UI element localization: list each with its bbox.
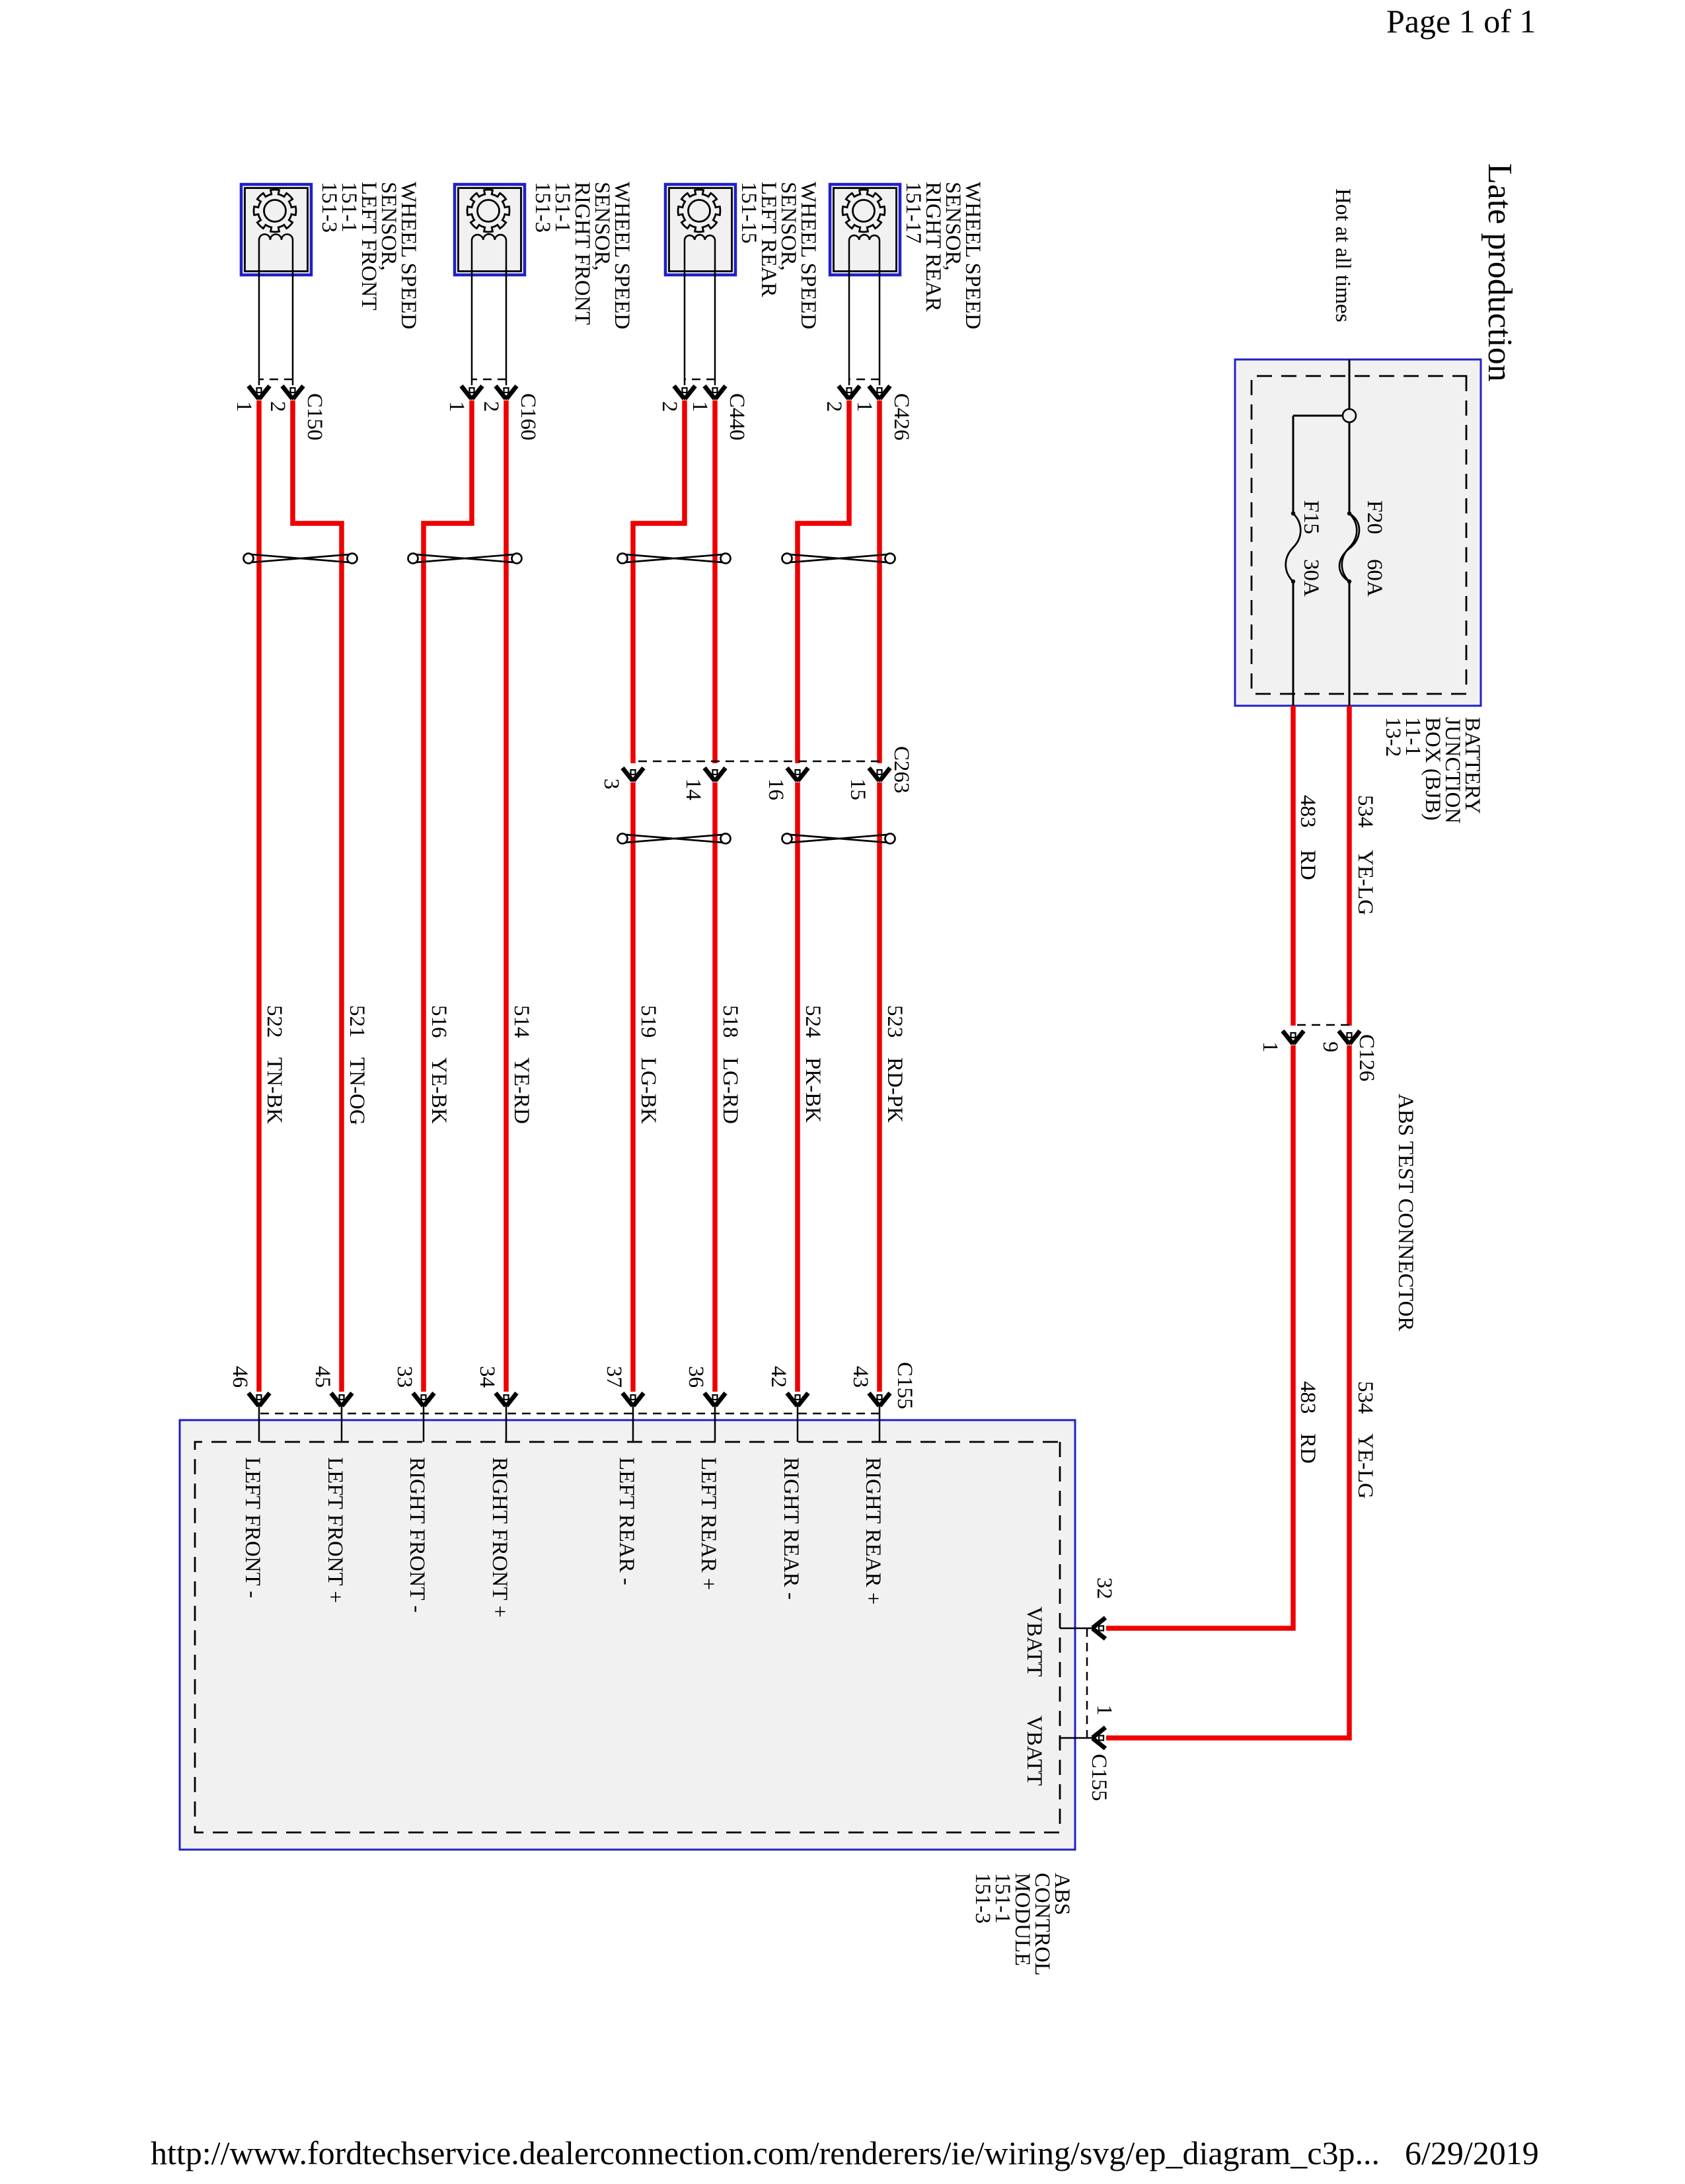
svg-text:483: 483 [1296, 795, 1320, 828]
svg-text:RD: RD [1296, 850, 1320, 880]
gear icon C440 [678, 190, 720, 232]
C263 pin 14 arrow [704, 768, 726, 782]
gear icon C150 [254, 190, 296, 232]
svg-text:30A: 30A [1299, 559, 1323, 597]
svg-text:C126: C126 [1355, 1034, 1378, 1082]
svg-text:483: 483 [1296, 1381, 1320, 1414]
svg-text:15: 15 [846, 778, 870, 800]
red wire 524 PK-BK (C426 pin 2) seg1 [798, 400, 849, 763]
wire F20 to BJB edge [1349, 582, 1351, 706]
svg-text:TN-OG: TN-OG [345, 1057, 369, 1125]
wire 534 YE-LG segment from BJB [1347, 706, 1352, 1026]
C263 dashed link [633, 761, 880, 763]
svg-text:RIGHT FRONT -: RIGHT FRONT - [405, 1457, 429, 1612]
svg-text:YE-LG: YE-LG [1353, 850, 1377, 915]
pin 1 lead [1060, 1737, 1094, 1739]
svg-text:RD-PK: RD-PK [883, 1057, 907, 1123]
svg-text:3: 3 [599, 778, 623, 790]
C263 pin 3 arrow [622, 768, 644, 782]
svg-text:C160: C160 [516, 393, 540, 441]
pin 42 lead [797, 1405, 799, 1442]
C160 connector arrow top [496, 386, 517, 400]
twisted pair symbol [618, 554, 731, 564]
C426 connector arrow top [869, 386, 890, 400]
svg-text:LEFT FRONT +: LEFT FRONT + [323, 1457, 347, 1603]
svg-text:TN-BK: TN-BK [262, 1057, 286, 1124]
svg-text:YE-LG: YE-LG [1353, 1433, 1377, 1499]
gear icon C160 [467, 190, 509, 232]
pin 32 lead [1060, 1628, 1094, 1630]
C440 pin lead bottom [684, 240, 686, 385]
C426 dashed link [849, 379, 880, 381]
pin 37 lead [632, 1405, 634, 1442]
C160 pin lead bottom [471, 240, 473, 385]
svg-text:518: 518 [718, 1005, 742, 1038]
C150 connector arrow bottom [248, 386, 270, 400]
svg-text:LEFT REAR +: LEFT REAR + [696, 1457, 720, 1590]
twisted pair symbol [618, 834, 731, 844]
red wire 519 LG-BK seg2 [630, 782, 636, 1392]
C126 dashed link [1293, 1024, 1349, 1026]
svg-text:RIGHT REAR +: RIGHT REAR + [861, 1457, 885, 1604]
red wire 523 RD-PK (C426 pin 1) seg1 [877, 400, 882, 763]
svg-text:9: 9 [1318, 1041, 1342, 1053]
svg-text:514: 514 [509, 1005, 533, 1038]
red wire from C150 pin 2 [293, 400, 342, 1392]
C155 pin 43 arrow [869, 1393, 890, 1408]
svg-text:YE-RD: YE-RD [509, 1057, 533, 1124]
svg-text:521: 521 [345, 1005, 369, 1038]
junction circle [1343, 409, 1356, 422]
twisted pair symbol [782, 834, 895, 844]
svg-text:LEFT REAR -: LEFT REAR - [615, 1457, 638, 1585]
svg-text:2: 2 [657, 401, 681, 412]
coil C160 [472, 234, 506, 240]
svg-text:ABSCONTROLMODULE151-1151-3: ABSCONTROLMODULE151-1151-3 [971, 1873, 1074, 1976]
pin 45 lead [341, 1405, 343, 1442]
C160 dashed link [472, 379, 506, 381]
C440 connector arrow top [704, 386, 726, 400]
red wire from C150 pin 1 [256, 400, 262, 1392]
svg-text:2: 2 [479, 401, 503, 412]
svg-text:C155: C155 [1087, 1754, 1111, 1801]
module inner dashed border [195, 1442, 1060, 1832]
svg-text:VBATT: VBATT [1022, 1606, 1046, 1676]
C426 pin lead top [879, 240, 881, 385]
wire BJB feed [1349, 359, 1351, 409]
twisted pair symbol [244, 554, 357, 564]
svg-text:WHEEL SPEEDSENSOR,RIGHT REAR15: WHEEL SPEEDSENSOR,RIGHT REAR151-17 [901, 182, 985, 329]
C155 pin 36 arrow [704, 1393, 726, 1408]
svg-text:32: 32 [1092, 1577, 1116, 1599]
red wire 524 PK-BK seg2 [795, 782, 800, 1392]
svg-text:RIGHT FRONT +: RIGHT FRONT + [488, 1457, 511, 1618]
wire 534 YE-LG to VBATT pin 1 [1106, 1045, 1349, 1738]
svg-text:C150: C150 [303, 393, 326, 441]
svg-text:16: 16 [764, 778, 788, 800]
VBATT dashed link [1086, 1628, 1088, 1738]
wheel speed sensor C160 box [455, 184, 525, 275]
svg-text:14: 14 [681, 778, 705, 800]
wire branch down [1293, 415, 1343, 417]
red wire 519 LG-BK (C440 pin 2) seg1 [633, 400, 685, 763]
svg-text:534: 534 [1353, 1381, 1377, 1414]
svg-text:WHEEL SPEEDSENSOR,LEFT FRONT15: WHEEL SPEEDSENSOR,LEFT FRONT151-1151-3 [317, 182, 420, 329]
fuse F15 30A [1286, 513, 1301, 582]
svg-text:1: 1 [852, 401, 876, 412]
coil C440 [685, 235, 715, 240]
svg-text:522: 522 [262, 1005, 286, 1038]
svg-text:C440: C440 [725, 393, 749, 441]
fuse F20 60A [1342, 513, 1357, 582]
svg-text:519: 519 [636, 1005, 660, 1038]
svg-text:C426: C426 [889, 393, 913, 441]
svg-text:F15: F15 [1299, 500, 1323, 534]
pin 46 lead [258, 1405, 260, 1442]
wire F15 to BJB edge [1292, 582, 1294, 706]
svg-text:VBATT: VBATT [1022, 1715, 1046, 1786]
svg-text:Hot at all times: Hot at all times [1331, 188, 1355, 322]
C150 pin lead bottom [258, 240, 260, 385]
pin 36 lead [714, 1405, 716, 1442]
svg-text:Page 1 of 1: Page 1 of 1 [1386, 3, 1536, 40]
svg-text:60A: 60A [1363, 559, 1386, 597]
C126 pin 1 arrow [1283, 1031, 1304, 1045]
C126 pin 9 arrow [1339, 1031, 1360, 1045]
svg-text:33: 33 [393, 1366, 416, 1388]
svg-text:1: 1 [688, 401, 712, 412]
svg-text:45: 45 [311, 1366, 334, 1388]
sensor C150 inner border [245, 188, 308, 272]
C155 pin 46 arrow [248, 1393, 270, 1408]
svg-text:LEFT FRONT -: LEFT FRONT - [241, 1457, 264, 1598]
wheel speed sensor C150 box [241, 184, 311, 275]
C440 dashed link [685, 379, 715, 381]
svg-text:C263: C263 [889, 746, 913, 794]
C150 dashed link [259, 379, 293, 381]
svg-text:LG-RD: LG-RD [718, 1057, 742, 1124]
svg-text:516: 516 [427, 1005, 451, 1038]
wheel speed sensor C426 box [830, 184, 900, 275]
C155 dashed link [259, 1413, 880, 1415]
C155 pin 34 arrow [496, 1393, 517, 1408]
C155 pin 45 arrow [331, 1393, 352, 1408]
svg-text:WHEEL SPEEDSENSOR,RIGHT FRONT1: WHEEL SPEEDSENSOR,RIGHT FRONT151-1151-3 [531, 182, 634, 329]
svg-text:WHEEL SPEEDSENSOR,LEFT REAR151: WHEEL SPEEDSENSOR,LEFT REAR151-15 [737, 182, 820, 329]
red wire 518 LG-RD (C440 pin 1) seg1 [712, 400, 718, 763]
C263 pin 16 arrow [787, 768, 808, 782]
svg-text:1: 1 [1092, 1705, 1116, 1716]
C263 pin 15 arrow [869, 768, 890, 782]
red wire 514 YE-RD (C160 pin 2) [504, 400, 509, 1392]
svg-text:http://www.fordtechservice.dea: http://www.fordtechservice.dealerconnect… [151, 2134, 1380, 2171]
sensor C440 inner border [669, 188, 732, 272]
wire 483 RD to VBATT pin 32 [1106, 1045, 1293, 1628]
BJB inner dashed border [1252, 376, 1466, 694]
svg-text:524: 524 [801, 1005, 825, 1038]
coil C426 [849, 235, 880, 240]
C440 pin lead top [714, 240, 716, 385]
red wire 523 RD-PK seg2 [877, 782, 882, 1392]
svg-text:LG-BK: LG-BK [636, 1057, 660, 1124]
svg-text:F20: F20 [1363, 500, 1386, 534]
gear icon C426 [842, 190, 885, 232]
svg-text:1: 1 [445, 401, 468, 412]
C155 pin 33 arrow [413, 1393, 434, 1408]
C440 connector arrow bottom [674, 386, 695, 400]
wire 483 RD segment from BJB [1291, 706, 1296, 1026]
red wire 516 YE-BK (C160 pin 1) [424, 400, 472, 1392]
coil C150 [259, 235, 293, 241]
C160 pin lead top [505, 240, 507, 385]
svg-text:RIGHT REAR -: RIGHT REAR - [779, 1457, 803, 1600]
wheel speed sensor C440 box [665, 184, 735, 275]
C150 connector arrow top [282, 386, 303, 400]
pin 34 lead [505, 1405, 507, 1442]
svg-text:43: 43 [848, 1366, 872, 1388]
svg-text:2: 2 [266, 401, 289, 412]
C155 pin 1 arrow [1091, 1727, 1105, 1749]
svg-text:534: 534 [1353, 795, 1377, 828]
svg-text:ABS TEST CONNECTOR: ABS TEST CONNECTOR [1394, 1094, 1417, 1331]
svg-text:PK-BK: PK-BK [801, 1057, 825, 1123]
C150 pin lead top [292, 240, 294, 385]
C155 pin 37 arrow [622, 1393, 644, 1408]
svg-text:2: 2 [822, 401, 846, 412]
svg-text:1: 1 [1258, 1041, 1282, 1053]
svg-text:37: 37 [602, 1366, 626, 1388]
pin 43 lead [879, 1405, 881, 1442]
svg-text:46: 46 [228, 1366, 252, 1388]
svg-text:RD: RD [1296, 1433, 1320, 1464]
C155 pin 32 arrow [1091, 1618, 1105, 1639]
battery junction box BJB outline [1235, 359, 1481, 706]
red wire 518 LG-RD seg2 [712, 782, 718, 1392]
pin 33 lead [423, 1405, 425, 1442]
svg-text:Late production: Late production [1481, 163, 1518, 382]
sensor C160 inner border [459, 188, 521, 272]
svg-text:C155: C155 [893, 1362, 917, 1410]
svg-text:34: 34 [475, 1366, 499, 1388]
C155 pin 42 arrow [787, 1393, 808, 1408]
C426 pin lead bottom [848, 240, 850, 385]
svg-text:523: 523 [883, 1005, 907, 1038]
ABS control module box [180, 1420, 1075, 1850]
sensor C426 inner border [834, 188, 897, 272]
svg-text:1: 1 [232, 401, 256, 412]
svg-text:YE-BK: YE-BK [427, 1057, 451, 1124]
C426 connector arrow bottom [839, 386, 860, 400]
svg-text:BATTERYJUNCTIONBOX (BJB)11-113: BATTERYJUNCTIONBOX (BJB)11-113-2 [1381, 717, 1484, 823]
C160 connector arrow bottom [461, 386, 482, 400]
svg-text:36: 36 [684, 1366, 708, 1388]
twisted pair symbol [782, 554, 895, 564]
wire to fuse F20 [1349, 422, 1351, 513]
svg-text:42: 42 [767, 1366, 790, 1388]
twisted pair symbol [408, 554, 522, 564]
svg-text:6/29/2019: 6/29/2019 [1405, 2134, 1539, 2171]
wire to fuse F15 [1292, 416, 1294, 513]
